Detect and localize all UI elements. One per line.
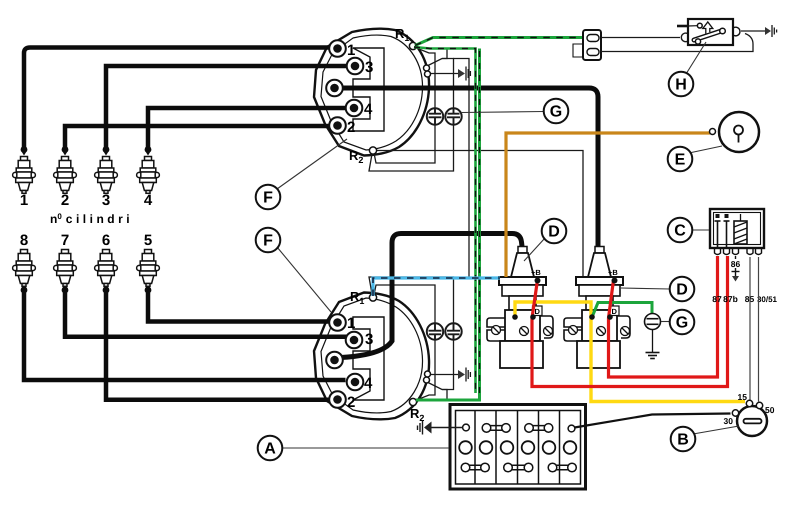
HT lead plug3 to top terminal 3	[106, 66, 347, 150]
svg-text:E: E	[675, 152, 686, 169]
switch H box	[677, 19, 740, 45]
svg-text:2: 2	[347, 394, 355, 411]
coil1 upper band	[502, 285, 543, 296]
battery A	[450, 405, 586, 490]
coil1 bracket hook	[540, 316, 553, 338]
wire top-dist to coil1 (thin vertical)	[453, 59, 469, 278]
HT lead plug8 to bottom terminal 4	[24, 289, 346, 380]
HT lead top-dist center to coil2 tower	[342, 88, 598, 250]
leader F1	[277, 139, 347, 189]
svg-text:87: 87	[712, 294, 722, 304]
battery ground wire	[431, 427, 463, 429]
leader D1	[524, 238, 545, 261]
junction dots spark plug wires row1	[21, 146, 152, 293]
coil1 body	[500, 341, 543, 368]
lamp E	[710, 112, 760, 152]
HT lead plug4 to top terminal 4	[148, 108, 346, 150]
red wire coil2 +B to relay 87	[609, 256, 718, 377]
svg-text:B: B	[677, 432, 689, 449]
svg-text:+B: +B	[531, 268, 541, 277]
wire connector to switch H	[601, 37, 680, 39]
svg-text:H: H	[675, 77, 687, 94]
spark plug 4	[137, 157, 160, 194]
svg-text:G: G	[676, 315, 688, 332]
svg-text:4: 4	[364, 375, 373, 392]
ignition coil D (coil2)	[564, 247, 630, 369]
yellow wire coil1 D to switch 15	[515, 302, 745, 402]
plug labels row 1	[20, 192, 153, 249]
HT lead plug2 to top terminal 2	[65, 126, 329, 150]
leader lines	[277, 42, 739, 448]
spark plug 8	[13, 250, 36, 287]
leader H	[686, 42, 706, 74]
svg-text:3: 3	[365, 59, 373, 76]
wire switch H to ground	[741, 30, 765, 32]
terminal number labels top distributor	[347, 42, 373, 136]
coil1 cap flange	[499, 277, 546, 285]
svg-text:7: 7	[61, 232, 69, 249]
green wire R1 to connector	[415, 38, 588, 46]
svg-text:F: F	[263, 190, 273, 207]
coil1 bracket center	[505, 310, 540, 341]
distributor F (bottom, mirrored)	[314, 293, 429, 420]
HT lead bottom-dist center to coil1 tower	[341, 234, 523, 358]
svg-text:3: 3	[365, 331, 373, 348]
battery links top	[482, 424, 553, 433]
relay terminal 86 arrow	[735, 256, 737, 259]
svg-text:30/51: 30/51	[757, 295, 778, 304]
relay prongs	[715, 248, 762, 255]
coil terminal post dots	[512, 278, 617, 320]
relay contact 2	[726, 221, 728, 247]
connector top	[573, 30, 601, 60]
coil1 tower	[518, 247, 527, 254]
spark plug 5	[137, 250, 160, 287]
spark plug 2	[54, 157, 77, 194]
blue dashed wire bottom R1 to coil1	[373, 278, 500, 296]
wire top-dist R2 to coil2 (thin)	[374, 151, 583, 277]
HT lead plug6 to bottom terminal 2	[106, 289, 329, 400]
orange wire lamp to coil1	[506, 133, 710, 277]
svg-text:1: 1	[20, 192, 28, 209]
ignition coil D (coil1)	[487, 247, 553, 369]
green wire coil2 D to capacitor G	[593, 303, 653, 317]
wire switch H return to connector	[601, 34, 753, 52]
svg-text:4: 4	[144, 192, 153, 209]
coil1 neck	[509, 296, 536, 310]
terminal number labels bottom distributor	[347, 315, 373, 411]
svg-text:4: 4	[364, 101, 373, 118]
capacitor G at coils	[645, 314, 661, 359]
relay terminal labels	[712, 259, 777, 304]
label circles	[256, 72, 696, 461]
svg-text:1: 1	[347, 315, 355, 332]
wire battery plus to switch 30	[575, 414, 731, 428]
leader G1	[461, 112, 544, 113]
wire relay 30/51 to switch 50	[758, 257, 760, 402]
HT lead plug1 to top terminal 1	[24, 48, 329, 151]
battery terminals	[463, 424, 470, 431]
ground symbol right of switch H	[765, 25, 777, 37]
switch terminal labels	[724, 392, 775, 426]
svg-text:C: C	[674, 223, 686, 240]
svg-text:15: 15	[738, 392, 748, 402]
svg-text:D: D	[535, 307, 541, 316]
battery cell caps	[459, 441, 576, 454]
coil1 bracket left wing	[487, 318, 505, 341]
ground symbol left of battery	[418, 421, 432, 435]
spark plug 7	[54, 250, 77, 287]
leader D2	[621, 288, 670, 289]
relay C	[710, 209, 764, 282]
HT lead plug5 to bottom terminal 1	[148, 289, 329, 322]
svg-text:G: G	[550, 104, 562, 121]
svg-text:5: 5	[144, 232, 152, 249]
svg-text:D: D	[548, 224, 560, 241]
spark plug 1	[13, 157, 36, 194]
switch H lever	[694, 31, 722, 40]
wire relay 85 to switch 15	[749, 257, 751, 400]
battery links bottom	[461, 463, 576, 472]
svg-text:1: 1	[347, 42, 355, 59]
svg-text:30: 30	[724, 416, 734, 426]
svg-text:8: 8	[20, 232, 28, 249]
distributor F (top)	[314, 29, 429, 156]
leader B	[693, 426, 739, 434]
svg-text:F: F	[263, 233, 273, 250]
coil1 D label	[533, 306, 543, 316]
svg-text:3: 3	[102, 192, 110, 209]
ignition switch B	[732, 400, 767, 436]
relay coil	[734, 221, 747, 244]
green wire R1 down to bottom R2 (dashed pair)	[414, 47, 476, 393]
svg-text:A: A	[264, 441, 276, 458]
svg-text:2: 2	[61, 192, 69, 209]
leader C	[692, 229, 709, 231]
switch H arrow	[703, 22, 713, 34]
svg-text:2: 2	[347, 119, 355, 136]
svg-text:87b: 87b	[723, 294, 738, 304]
coil1 screws	[492, 326, 553, 336]
leader F2	[277, 247, 331, 312]
svg-text:D: D	[676, 282, 688, 299]
leader G2	[661, 321, 670, 323]
relay contact 1	[717, 221, 719, 247]
svg-text:50: 50	[765, 405, 775, 415]
spark plug 3	[95, 157, 118, 194]
svg-text:6: 6	[102, 232, 110, 249]
red wire coil1 +B to relay 87b	[532, 256, 728, 387]
leader E	[689, 146, 722, 153]
switch H stub	[677, 25, 688, 28]
leader A	[282, 447, 450, 449]
spark plug 6	[95, 250, 118, 287]
svg-text:86: 86	[731, 259, 741, 269]
HT lead plug7 to bottom terminal 3	[65, 289, 347, 337]
switch H right hook	[734, 27, 740, 36]
